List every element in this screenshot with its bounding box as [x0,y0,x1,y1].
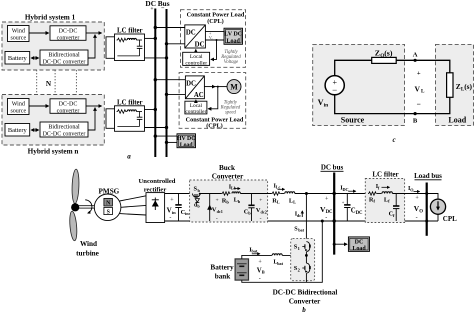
svg-text:(CPL): (CPL) [206,123,223,130]
wire DC-AC to motor [204,86,215,88]
svg-text:DC-DC: DC-DC [59,28,78,34]
ZL impedance box [447,73,453,98]
svg-text:(CPL): (CPL) [207,18,224,25]
Vin source circle [325,76,344,95]
node bus1 CPL2 [154,78,157,81]
LC filter n resistor [117,110,128,114]
svg-text:+: + [216,197,219,203]
node bottom rail joint [321,220,324,223]
bidirectional DC-DC converter box 1 [40,50,88,65]
bottom rail bus to CPL [334,220,438,222]
wire battery to bidirectional 1 [31,57,38,59]
svg-text:DC-DC Bidirectional: DC-DC Bidirectional [273,289,338,297]
svg-text:Bidirectional: Bidirectional [48,53,80,59]
db diode [195,199,199,203]
svg-text:1: 1 [298,246,300,251]
rotation arrow [85,200,92,213]
LC filter b dashed box [365,179,404,223]
node A [414,59,417,62]
S1 IGBT [306,242,310,252]
wire wind source to converter n [29,105,49,107]
hybrid system 1 dashed box [2,22,104,70]
PMSG magnet N [104,198,113,206]
svg-text:bat: bat [298,228,304,233]
CPL 2 (DC-AC motor) [154,73,246,130]
svg-text:B: B [413,118,418,125]
svg-text:source: source [10,108,26,114]
svg-text:−: − [161,5,165,12]
svg-text:-: - [416,216,418,222]
svg-text:Wind: Wind [80,240,97,248]
svg-text:+: + [415,196,419,202]
node bus bottom rail [333,219,336,222]
svg-text:(s): (s) [384,49,393,58]
LC filter 1 inductor [127,38,136,40]
svg-text:Local: Local [190,54,203,60]
hybrid system n dashed box [2,95,104,146]
feedback wire CPL2 [208,87,218,109]
node LCn-bus1 [154,108,157,111]
svg-text:HV DC: HV DC [177,136,195,142]
node feedback tap CPL1 [216,39,218,41]
svg-text:converter: converter [57,108,80,114]
svg-text:+: + [170,198,174,204]
LC filter 1 input bracket [106,37,115,59]
wire bidirectional n to node [88,108,95,130]
DC-DC converter box n [50,99,86,114]
svg-text:L: L [277,200,280,205]
svg-text:DC: DC [326,210,333,215]
bidirectional converter wire from top rail [305,194,307,244]
LC filter n input bracket [106,109,115,129]
wire wind source to converter 1 [29,32,49,34]
svg-text:turbine: turbine [76,250,99,258]
svg-text:a: a [127,153,131,161]
wire converter 1 output [86,32,102,34]
wire bus1 to DC-AC [155,79,185,81]
Lb inductor [232,192,240,194]
svg-text:-: - [325,216,327,222]
svg-text:CPL: CPL [443,215,457,223]
S1-S2 mid wire [305,252,307,263]
svg-text:DC: DC [355,239,364,245]
CDC capacitor [346,194,348,205]
controller to DC-AC arrow [195,100,197,101]
LL inductor [285,192,295,194]
wire bottom c [335,95,450,114]
node LCn-bus2 [165,126,168,129]
wire LC1 to bus2 [145,57,167,59]
svg-text:DC: DC [186,30,196,37]
svg-text:O: O [419,210,423,215]
wind turbine upper blade [72,169,80,204]
node battery wire to converter [305,254,308,257]
node bus1 CPL1 [154,26,157,29]
feedback wire CPL1 [211,40,217,59]
battery box 1 [5,52,30,65]
node bus2 CPL1 [165,42,168,45]
Lbat inductor [272,254,282,256]
wind source box n [8,99,30,115]
Rb resistor [222,192,231,195]
wire bidirectional 1 to node [88,35,95,58]
svg-text:Hybrid system 1: Hybrid system 1 [25,14,76,22]
rail bus to LC filter [334,193,368,195]
node feedback tap CPL2 [217,86,219,88]
dashed connector 1 [36,70,38,95]
svg-text:in: in [324,102,329,108]
DC-AC converter block [185,76,204,99]
svg-text:V: V [415,84,421,93]
battery bank symbol [235,259,248,280]
node load bus bottom [425,220,428,223]
node bus2 CPL2 [165,93,168,96]
wire converter to LV load bottom [205,39,224,41]
svg-text:Wind: Wind [12,28,25,34]
svg-text:+: + [325,197,329,203]
wind turbine lower blade [69,211,78,241]
svg-text:-: - [260,216,262,222]
top rail rectifier to buck [165,193,193,195]
svg-text:N: N [46,80,52,88]
svg-text:Load bus: Load bus [414,172,442,180]
svg-text:source: source [10,35,26,41]
svg-text:Wind: Wind [12,101,25,107]
CPL circle [430,199,445,214]
PMSG magnet S [104,207,113,214]
svg-text:M: M [230,83,238,92]
LC filter n wire to cap [136,111,142,113]
3-phase wire 3 [120,214,146,215]
LC filter n box [115,106,145,132]
svg-text:2: 2 [298,268,300,273]
svg-text:Battery: Battery [8,127,28,134]
battery top wire [242,255,272,259]
svg-text:Load: Load [227,38,241,44]
svg-text:LC filter: LC filter [117,28,142,35]
svg-text:b: b [302,306,306,314]
load dashed box [436,44,474,125]
Cin capacitor [178,194,180,205]
rail LL to DC bus [280,193,284,195]
LC filter n inductor [127,110,136,112]
svg-text:speed: speed [225,111,237,116]
svg-text:Battery: Battery [8,55,28,62]
battery box n [5,124,30,137]
svg-text:Load: Load [180,142,194,148]
svg-text:Converter: Converter [212,173,244,181]
wind source box 1 [8,26,30,42]
svg-text:S: S [107,210,110,216]
bidirectional converter dashed box [291,239,315,281]
wire converter n output [86,105,102,107]
svg-text:controller: controller [185,109,206,115]
svg-text:bat: bat [277,261,283,266]
Vdc1 branch wire [209,194,211,222]
Rf resistor [368,192,377,195]
wire LC1 to bus1 [145,37,156,39]
svg-text:+: + [150,6,153,12]
svg-text:AC: AC [194,92,204,99]
wire LCn to bus1 [145,109,156,111]
node branch to bidirectional [305,192,308,195]
node bus2 HVDC [165,141,168,144]
svg-text:DC: DC [343,187,349,192]
wind turbine hub [71,203,79,211]
svg-text:A: A [413,52,418,59]
HV DC load [154,134,196,149]
node LC1-bus2 [165,56,168,59]
node B [414,112,417,115]
DC Load box [348,237,369,252]
load bus bar [426,183,428,236]
Lf inductor [382,192,392,194]
battery + bidirectional converter [210,194,337,314]
wire top left c [335,60,372,75]
S2 to bottom wire [305,273,307,282]
rail Lf to load bus [392,193,426,195]
LV DC Load box [224,28,243,44]
LC filter n capacitor [139,112,141,118]
controller to converter arrow CPL1 [195,50,197,53]
wire bus1 to DC-DC CPL1 [155,27,185,29]
svg-text:bat: bat [252,249,258,254]
CPL stub top [427,194,438,200]
wire bus2 to HVDC [167,141,178,143]
svg-text:+: + [342,200,345,205]
node load bus top [425,192,428,195]
LC filter n bottom rail [117,125,139,127]
RL resistor [272,192,281,195]
svg-text:in: in [185,211,189,216]
svg-text:Buck: Buck [219,164,235,172]
svg-text:DC: DC [195,41,205,48]
3-phase wire 2 [121,205,146,207]
rail Sb to RL [200,193,222,195]
DC-DC converter block CPL1 [185,25,206,48]
svg-text:Source: Source [341,116,365,125]
svg-text:L: L [421,89,425,95]
LC filter 1 resistor [117,38,128,42]
DC-DC converter box 1 [50,26,86,41]
svg-text:Uncontrolled: Uncontrolled [139,178,176,185]
svg-text:Hybrid system n: Hybrid system n [28,148,79,156]
source dashed box [313,44,405,125]
wire bus2 to DC-AC [167,93,186,95]
CPL1 dashed box [181,10,246,68]
Cb capacitor branch [251,194,253,206]
svg-text:L: L [293,200,296,205]
LC filter 1 box [115,34,145,61]
svg-text:(s): (s) [464,82,472,91]
DC bus bar 2 [166,9,168,157]
3-phase wire 1 [120,196,146,201]
svg-text:Load: Load [448,116,466,125]
node LC1-bus1 [154,37,157,40]
DC bus bar b [333,173,335,255]
PMSG circle [94,194,121,221]
svg-text:bank: bank [215,273,231,281]
wire battery to bidirectional n [31,129,38,131]
svg-text:Bidirectional: Bidirectional [48,125,80,131]
wire bus1 to HVDC [155,135,177,137]
svg-text:Lb: Lb [231,186,237,191]
bottom rail b [165,220,335,222]
svg-text:dc1: dc1 [217,209,223,214]
svg-text:B: B [262,270,265,275]
Zo impedance box [372,57,397,63]
DC load arrow [334,243,347,245]
shaft wire turbine to PMSG [79,205,95,207]
bidirectional DC-DC converter box n [40,122,88,137]
svg-text:DC Bus: DC Bus [145,0,169,8]
svg-text:c: c [392,136,395,144]
svg-text:+: + [258,259,262,265]
node bus1 HVDC [154,134,157,137]
rectifier box [146,193,165,223]
svg-text:in: in [172,210,176,215]
svg-text:+: + [259,198,262,204]
rail Lb to Cb [240,193,271,195]
svg-text:-: - [169,216,171,222]
svg-text:controller: controller [185,60,207,66]
local controller box CPL2 [185,101,207,114]
wire converter to LV load top [205,30,224,32]
Vdc1 arrow [208,206,212,211]
rail Rf to Lf [377,193,382,195]
svg-text:DC: DC [356,211,363,216]
svg-text:DC: DC [186,81,196,88]
rectifier diode [154,198,156,211]
motor M [227,80,241,94]
svg-text:LC filter: LC filter [372,171,398,179]
CPL stub bottom [437,214,439,221]
wire Zo to load [396,60,450,73]
dashed connector 2 [54,70,56,95]
node bus DC load [333,243,336,246]
wire bus2 to DC-DC CPL1 [167,43,185,45]
DC bus bar 1 [154,9,156,158]
svg-text:DC-DC converter: DC-DC converter [43,60,86,66]
svg-text:Battery: Battery [210,263,234,271]
S2 IGBT [306,263,310,273]
svg-text:+: + [417,70,421,77]
svg-text:dc2: dc2 [261,209,267,214]
LC filter 1 capacitor [139,40,141,46]
CPL 1 (DC-DC) [154,10,246,68]
svg-text:−: − [332,85,337,95]
HV DC Load box [177,134,196,148]
svg-text:Load: Load [352,246,366,252]
LC filter 1 wire to cap [136,39,142,41]
buck converter dashed box [190,180,268,222]
svg-text:Voltage: Voltage [224,60,239,65]
wire LCn to bus2 [145,127,167,129]
dashed connector 3 [75,70,77,95]
svg-text:DC-DC converter: DC-DC converter [43,132,86,138]
battery top wire to converter [282,254,306,256]
svg-text:converter: converter [57,35,80,41]
hybrid system n [2,95,168,156]
Sb switch symbol [192,194,200,197]
local controller box CPL1 [183,52,210,65]
svg-text:-: - [216,215,218,221]
svg-text:DC-DC: DC-DC [59,101,78,107]
svg-text:−: − [417,100,421,109]
CPL2 dashed box [179,73,246,129]
node bus top rail [333,192,336,195]
svg-text:Converter: Converter [289,298,321,306]
svg-text:-: - [259,276,261,282]
svg-text:LV DC: LV DC [224,31,242,37]
battery bottom wire [242,221,322,282]
LC filter 1 bottom rail [117,55,139,57]
svg-text:DC bus: DC bus [321,164,344,172]
Cf capacitor [395,194,397,207]
